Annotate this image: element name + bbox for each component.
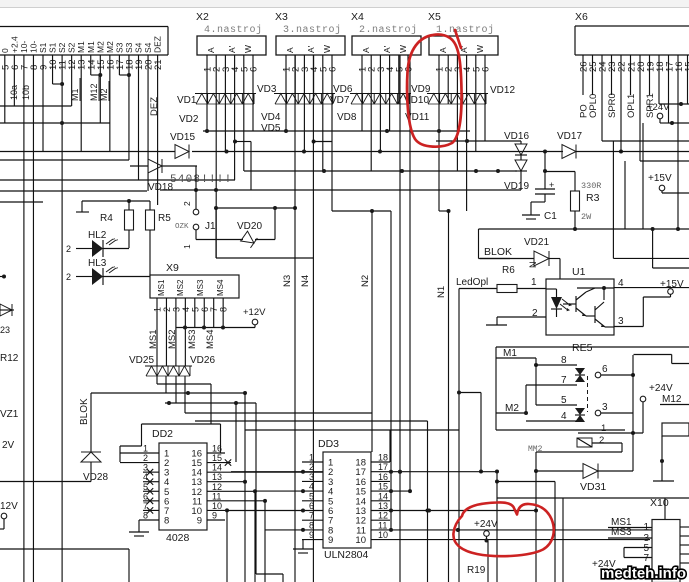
svg-text:16: 16 xyxy=(378,472,388,482)
svg-text:A: A xyxy=(285,47,295,53)
svg-text:7: 7 xyxy=(643,553,649,564)
wire x448 mid xyxy=(448,211,450,582)
relay RE5 notch xyxy=(634,355,689,364)
wire hl row xyxy=(0,275,6,279)
connector X9 xyxy=(150,262,239,312)
wire x227 down xyxy=(226,510,228,582)
svg-text:S4: S4 xyxy=(134,42,144,53)
wire x245 down xyxy=(244,482,246,582)
svg-text:RE5: RE5 xyxy=(572,342,593,354)
wire x400 down xyxy=(398,55,402,582)
diode VD19 xyxy=(504,155,529,192)
wire X2-X5 pin verticals xyxy=(207,55,485,258)
wire y141 right xyxy=(602,140,689,142)
svg-text:1: 1 xyxy=(531,277,537,288)
svg-text:2: 2 xyxy=(143,453,148,463)
svg-text:VD16: VD16 xyxy=(504,131,529,142)
svg-text:+15V: +15V xyxy=(648,173,672,184)
note 5408 xyxy=(170,174,232,186)
node M12 xyxy=(89,75,99,101)
chip DD3 right pins xyxy=(371,453,652,541)
connector X6 xyxy=(575,11,689,72)
svg-text:N4: N4 xyxy=(300,275,311,287)
svg-text:VD4: VD4 xyxy=(261,112,281,123)
chip DD2 ground xyxy=(129,520,149,536)
watermark medteh.info xyxy=(601,565,686,582)
svg-text:+24V: +24V xyxy=(649,383,673,394)
U1 pin3 wire xyxy=(605,316,643,327)
svg-text:R3: R3 xyxy=(586,192,600,204)
diode VD10 label xyxy=(404,95,429,106)
connector M12 box xyxy=(653,423,689,519)
svg-text:VZ1: VZ1 xyxy=(0,409,19,420)
wire J1 top xyxy=(195,166,197,209)
wire N3 vertical xyxy=(294,55,296,582)
wire x10 57 xyxy=(624,548,652,558)
svg-text:SPR0: SPR0 xyxy=(607,93,618,118)
relay RE5 contact top xyxy=(575,368,585,382)
node N1 xyxy=(436,286,447,298)
svg-text:12V: 12V xyxy=(0,501,18,512)
wire bus y191 xyxy=(0,190,147,192)
wire MM2 pin1 xyxy=(578,423,643,434)
node 2V xyxy=(2,440,15,451)
connector X10 xyxy=(643,497,680,582)
node DEZ xyxy=(149,97,160,116)
wire x265 down xyxy=(264,501,266,582)
wire x488 R19 xyxy=(467,541,488,582)
svg-text:1: 1 xyxy=(143,444,148,454)
diode VD20 xyxy=(237,221,275,248)
wire X9 out verticals xyxy=(157,376,185,413)
diode VD18 xyxy=(130,159,197,193)
svg-text:10: 10 xyxy=(355,535,366,546)
node 23 xyxy=(0,325,10,335)
resistor R6 body xyxy=(497,277,546,293)
wire J1 to VD20 xyxy=(196,239,243,241)
wire bus y413 xyxy=(185,413,459,511)
svg-text:VD25: VD25 xyxy=(129,355,154,366)
wire X6 pin21 OPL1 xyxy=(626,55,637,118)
wire y258 left xyxy=(216,208,313,258)
svg-text:16: 16 xyxy=(212,444,222,454)
diode VD23 left edge xyxy=(0,304,14,316)
svg-text:HL3: HL3 xyxy=(88,258,107,269)
svg-text:A': A' xyxy=(382,45,392,53)
relay RE5 M1 xyxy=(496,348,538,367)
wire bus y151 xyxy=(0,151,175,153)
chip DD2 outer box xyxy=(120,424,221,462)
resistor R6 xyxy=(502,265,515,276)
diode VD12 label xyxy=(490,85,515,96)
capacitor C1 xyxy=(522,152,557,223)
svg-text:+2.4: +2.4 xyxy=(9,36,19,53)
wire X6 pin24 xyxy=(601,55,603,141)
svg-text:10-: 10- xyxy=(19,41,29,53)
svg-text:VD5: VD5 xyxy=(261,123,281,134)
wire bus y152 main xyxy=(192,150,623,154)
led HL3 xyxy=(66,258,150,285)
svg-text:M12: M12 xyxy=(89,83,99,101)
svg-text:OPL1: OPL1 xyxy=(626,94,637,118)
svg-text:0: 0 xyxy=(0,48,10,53)
svg-text:N2: N2 xyxy=(360,275,371,287)
svg-text:15: 15 xyxy=(212,453,222,463)
wire x643 xyxy=(642,123,644,229)
diode VD26 xyxy=(167,355,215,376)
svg-text:W: W xyxy=(398,45,408,53)
diode VD7 label xyxy=(330,95,350,106)
svg-text:+24V: +24V xyxy=(474,519,498,530)
svg-text:W: W xyxy=(322,45,332,53)
led HL2 xyxy=(66,230,129,257)
wire X6 pin20 xyxy=(639,55,641,161)
svg-text:S4: S4 xyxy=(143,42,153,53)
wire DD3 pin2 link xyxy=(231,471,302,473)
svg-text:VD17: VD17 xyxy=(557,131,582,142)
diode VD1 label xyxy=(177,95,197,106)
svg-text:VD8: VD8 xyxy=(337,112,357,123)
svg-text:5408!!!!: 5408!!!! xyxy=(170,174,232,186)
wire y498 bus xyxy=(497,497,689,499)
svg-text:W: W xyxy=(475,45,485,53)
chip DD2 right pins xyxy=(207,444,323,521)
terminal +24V x10 xyxy=(592,559,652,570)
wire bus y123 xyxy=(0,121,110,125)
wire X6 pin17 xyxy=(668,55,670,123)
svg-text:2.nastroj: 2.nastroj xyxy=(359,24,418,36)
svg-text:13: 13 xyxy=(378,501,388,511)
wire x563 vertical xyxy=(562,498,564,582)
svg-text:ULN2804: ULN2804 xyxy=(324,549,369,561)
node 10a xyxy=(9,85,19,100)
wire x633 xyxy=(631,355,635,471)
svg-text:9: 9 xyxy=(197,515,202,526)
svg-text:VD3: VD3 xyxy=(257,84,277,95)
svg-text:3: 3 xyxy=(618,316,624,327)
svg-text:2: 2 xyxy=(182,201,192,206)
svg-text:S3: S3 xyxy=(124,42,134,53)
terminal +24V relay xyxy=(640,383,673,433)
svg-text:X10: X10 xyxy=(650,497,669,509)
relay RE5 box xyxy=(496,342,689,430)
chip DD3 label ULN2804 xyxy=(324,549,369,561)
wire jumper pins 10-11 xyxy=(53,82,65,86)
U1 transistor2 xyxy=(586,302,605,327)
svg-text:10: 10 xyxy=(378,530,388,540)
svg-text:8: 8 xyxy=(561,355,567,366)
wire N1 feed xyxy=(439,209,451,213)
svg-text:S3: S3 xyxy=(114,42,124,53)
svg-text:MS1: MS1 xyxy=(157,279,166,296)
svg-text:MS3: MS3 xyxy=(611,527,632,538)
optocoupler U1 xyxy=(546,266,614,335)
diode VD28 xyxy=(81,452,108,483)
svg-text:DD3: DD3 xyxy=(318,438,339,450)
svg-text:M2: M2 xyxy=(505,403,519,414)
wire bus y259 xyxy=(651,227,689,268)
wire x255 down xyxy=(254,491,256,582)
wire X6 pin22 xyxy=(620,55,622,152)
wire y190 dot xyxy=(214,188,218,192)
svg-text:VD20: VD20 xyxy=(237,221,262,232)
wire x481 vertical xyxy=(457,391,483,474)
svg-text:VD12: VD12 xyxy=(490,85,515,96)
U1 pin4 wire xyxy=(577,278,689,300)
resistor R4 xyxy=(100,201,134,248)
svg-text:7: 7 xyxy=(143,501,148,511)
svg-text:4: 4 xyxy=(143,472,148,482)
connector X3 xyxy=(274,11,345,104)
svg-text:14: 14 xyxy=(212,463,222,473)
wire X6 pin25 OPL0 xyxy=(588,55,599,118)
svg-text:8: 8 xyxy=(164,515,169,526)
svg-text:2: 2 xyxy=(66,272,71,282)
svg-text:MS2: MS2 xyxy=(176,279,185,296)
wire jumper pins 14-15 xyxy=(91,73,103,77)
relay RE5 pin7 xyxy=(526,375,577,413)
diode VD9 label xyxy=(411,84,431,95)
svg-text:X6: X6 xyxy=(575,11,588,23)
svg-text:4028: 4028 xyxy=(166,532,190,544)
svg-text:9: 9 xyxy=(212,510,217,520)
connector X1 xyxy=(0,27,168,71)
svg-text:6: 6 xyxy=(249,67,260,72)
node N3 xyxy=(282,275,293,287)
svg-text:U1: U1 xyxy=(572,266,586,278)
svg-text:R12: R12 xyxy=(0,353,19,364)
node VZ1 xyxy=(0,409,19,420)
wire y123 right xyxy=(669,121,689,125)
svg-text:VD9: VD9 xyxy=(411,84,431,95)
diode VD2 label xyxy=(179,114,199,125)
wire +12V rail xyxy=(176,326,255,330)
wire X6 pin19 SPR1 xyxy=(645,55,656,118)
diode VD6 label xyxy=(333,84,353,95)
wire DD3 pin4 link xyxy=(255,490,302,492)
U1 gnd xyxy=(486,317,507,325)
connector X2 xyxy=(195,11,266,104)
svg-text:8: 8 xyxy=(143,510,148,520)
node VD30 partial xyxy=(503,581,528,582)
svg-text:DEZ: DEZ xyxy=(153,36,163,53)
wire bus y403 xyxy=(165,401,283,582)
node MS1 x10 xyxy=(608,517,652,528)
node MS3 label xyxy=(187,329,198,349)
svg-text:N1: N1 xyxy=(436,286,447,298)
wire VD20 up xyxy=(273,206,277,240)
relay RE5 pin6 xyxy=(595,364,635,378)
svg-text:VD15: VD15 xyxy=(170,132,195,143)
diode VD25 xyxy=(129,355,170,376)
wire R4R5 top xyxy=(76,199,150,212)
svg-text:12: 12 xyxy=(378,511,388,521)
svg-text:S2: S2 xyxy=(57,42,67,53)
svg-text:medteh.info: medteh.info xyxy=(601,565,686,582)
node M1 xyxy=(70,78,80,101)
wire x391 vertical xyxy=(390,211,392,530)
svg-text:11: 11 xyxy=(212,491,221,501)
svg-text:MS4: MS4 xyxy=(205,329,216,349)
svg-text:M2: M2 xyxy=(99,88,109,101)
wire x497 vertical xyxy=(495,470,499,582)
terminal 12V left xyxy=(0,501,18,529)
wire bus y208 xyxy=(214,206,297,210)
relay RE5 contact bottom xyxy=(575,408,585,422)
svg-text:S1: S1 xyxy=(48,42,58,53)
svg-text:MS4: MS4 xyxy=(216,279,225,296)
svg-text:23: 23 xyxy=(0,325,10,335)
svg-text:S2: S2 xyxy=(67,42,77,53)
svg-text:X4: X4 xyxy=(351,11,364,23)
diode VD11 label xyxy=(405,112,430,123)
svg-text:15: 15 xyxy=(684,61,689,72)
svg-text:5: 5 xyxy=(143,482,148,492)
wire y161 right xyxy=(640,160,689,162)
chip DD3 ground xyxy=(293,540,313,553)
svg-text:330R: 330R xyxy=(581,181,601,191)
svg-text:15: 15 xyxy=(378,482,388,492)
svg-text:VD1: VD1 xyxy=(177,95,197,106)
svg-text:X5: X5 xyxy=(428,11,441,23)
svg-text:X2: X2 xyxy=(196,11,209,23)
svg-text:C1: C1 xyxy=(544,211,557,222)
svg-text:2V: 2V xyxy=(2,440,15,451)
svg-text:+12V: +12V xyxy=(243,307,266,318)
wire x236 vertical xyxy=(235,403,237,462)
svg-text:3: 3 xyxy=(602,402,608,413)
connector X4 xyxy=(350,11,421,104)
svg-text:LedOpl: LedOpl xyxy=(456,277,488,288)
svg-text:3.nastroj: 3.nastroj xyxy=(283,24,342,36)
wire DD3 pin18 up xyxy=(389,430,391,462)
connector J1 xyxy=(175,201,216,249)
wire jumper pins 18-19 xyxy=(119,73,131,77)
svg-text:10b: 10b xyxy=(21,85,31,100)
connector X10 right stubs xyxy=(680,527,689,563)
diode VD31 xyxy=(534,464,633,494)
svg-text:M1: M1 xyxy=(86,41,96,53)
svg-text:R19: R19 xyxy=(467,565,486,576)
svg-text:18: 18 xyxy=(378,453,388,463)
component MM2 xyxy=(528,435,622,471)
wire y481 left xyxy=(0,481,91,483)
svg-text:+15V: +15V xyxy=(660,279,684,290)
wire x245 vertical xyxy=(244,393,246,482)
resistor R3 xyxy=(545,172,601,230)
U1 pin2 wire xyxy=(497,308,546,319)
svg-text:A': A' xyxy=(227,45,237,53)
svg-text:10: 10 xyxy=(212,501,222,511)
svg-text:10-: 10- xyxy=(28,41,38,53)
svg-text:A: A xyxy=(438,47,448,53)
svg-text:S1: S1 xyxy=(38,42,48,53)
wire x625 xyxy=(624,161,626,230)
svg-text:MS3: MS3 xyxy=(196,279,205,296)
wire bus y202 xyxy=(0,201,43,203)
terminal +15V bottom xyxy=(643,279,684,327)
svg-text:M2: M2 xyxy=(105,41,115,53)
svg-text:10a: 10a xyxy=(9,85,19,100)
wire X9 pin verticals xyxy=(157,298,223,366)
chip DD3 xyxy=(318,438,371,548)
connector X5 xyxy=(427,11,498,104)
relay RE5 pin5 xyxy=(536,365,577,406)
relay RE5 pin8 xyxy=(536,355,577,366)
svg-text:W: W xyxy=(243,45,253,53)
node MS3 x10 xyxy=(608,527,652,538)
svg-text:J1: J1 xyxy=(205,221,216,232)
svg-text:VD2: VD2 xyxy=(179,114,199,125)
svg-text:A: A xyxy=(361,47,371,53)
wire DD3 pin8 link xyxy=(265,529,302,531)
svg-text:X9: X9 xyxy=(166,262,179,274)
wire X6 pin16 xyxy=(677,55,679,229)
svg-text:A': A' xyxy=(306,45,316,53)
svg-text:VD21: VD21 xyxy=(524,237,549,248)
svg-text:BLOK: BLOK xyxy=(484,246,512,258)
wire bus y171 xyxy=(244,169,517,173)
node MS2 label xyxy=(167,329,178,349)
diode VD21 xyxy=(479,237,561,279)
U1 transistor1 xyxy=(563,292,586,316)
svg-text:R6: R6 xyxy=(502,265,515,276)
wire x429 vertical xyxy=(426,509,430,513)
resistor R5 xyxy=(146,201,172,276)
svg-text:14: 14 xyxy=(378,491,388,501)
node M12 label xyxy=(660,394,689,405)
wire X6 pin18 xyxy=(658,55,660,104)
svg-text:M1: M1 xyxy=(70,88,80,101)
svg-text:VD6: VD6 xyxy=(333,84,353,95)
wire bus y423 xyxy=(458,289,460,582)
wire x429 down2 xyxy=(427,511,429,582)
relay RE5 dashed link xyxy=(587,376,589,412)
annotation red ellipse X5 xyxy=(407,30,462,147)
wire X6 pin26 PO xyxy=(579,55,590,118)
svg-text:VD31: VD31 xyxy=(580,481,606,493)
wire bottom left bus xyxy=(0,549,129,582)
svg-text:12: 12 xyxy=(212,482,222,492)
node BLOK right xyxy=(480,246,512,259)
diode VD8 label xyxy=(337,112,357,123)
node N4 xyxy=(300,275,311,287)
node MS4 label xyxy=(205,329,216,349)
node N rot xyxy=(528,262,538,269)
node BLOK left xyxy=(79,393,91,452)
wire bus y393 xyxy=(91,391,247,395)
svg-text:DEZ: DEZ xyxy=(149,97,160,116)
svg-text:21: 21 xyxy=(153,59,164,70)
svg-text:HL2: HL2 xyxy=(88,230,107,241)
relay RE5 pin4 xyxy=(526,411,577,422)
svg-text:VD19: VD19 xyxy=(504,181,529,192)
wire bus y180 xyxy=(0,179,235,181)
svg-text:4.nastroj: 4.nastroj xyxy=(204,24,263,36)
svg-text:2: 2 xyxy=(66,244,71,254)
chip DD2 xyxy=(152,428,207,530)
diode VD5 label xyxy=(261,123,281,134)
terminal +24V bottom xyxy=(456,519,498,543)
wire bus y141 xyxy=(233,139,521,211)
svg-text:1: 1 xyxy=(182,244,192,249)
svg-text:N: N xyxy=(528,262,538,269)
node LedOpl xyxy=(456,277,497,289)
wire bus y238 xyxy=(613,141,689,258)
U1 led xyxy=(546,289,572,317)
svg-text:6: 6 xyxy=(602,364,608,375)
diode VD16 xyxy=(504,131,529,155)
